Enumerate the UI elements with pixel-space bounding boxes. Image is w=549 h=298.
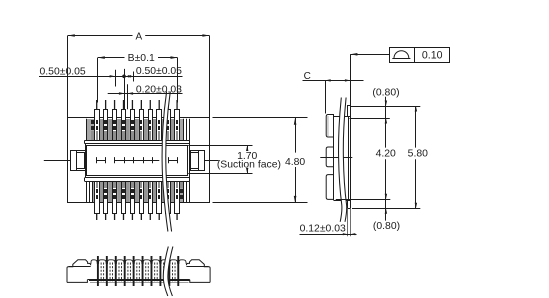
central body inner line bbox=[87, 146, 188, 176]
profile tolerance frame bbox=[390, 48, 450, 63]
bottom band left end wall bbox=[87, 181, 93, 202]
side view pin edge extensions bbox=[347, 208, 349, 236]
svg-text:B±0.1: B±0.1 bbox=[128, 53, 155, 64]
dimension 4.20/0.80 line bbox=[385, 97, 387, 148]
svg-text:0.50±0.05: 0.50±0.05 bbox=[136, 66, 182, 77]
side view body left edge bbox=[333, 114, 335, 200]
dimension 5.80 line bbox=[415, 106, 417, 148]
top housing band (gray) bbox=[87, 119, 189, 140]
svg-text:(0.80): (0.80) bbox=[372, 88, 399, 99]
main view break gap (white) bbox=[162, 92, 172, 232]
svg-text:(0.80): (0.80) bbox=[373, 221, 400, 232]
side view top tab bbox=[326, 115, 334, 138]
top band end pocket bbox=[91, 120, 94, 124]
datum dot bbox=[122, 75, 126, 79]
dimension 5.80 extension top bbox=[351, 106, 421, 108]
side view mating face lines bbox=[348, 116, 350, 200]
side view body top edge bbox=[334, 116, 351, 118]
svg-text:4.80: 4.80 bbox=[285, 157, 305, 168]
bottom band end pocket bbox=[180, 182, 183, 188]
dimension B extension left bbox=[97, 58, 99, 103]
side view break line right bbox=[343, 98, 346, 222]
bottom view base plate lines bbox=[87, 279, 189, 281]
svg-text:(Suction face): (Suction face) bbox=[217, 159, 281, 170]
bottom view break line left bbox=[163, 247, 168, 297]
pin4 center extension bbox=[124, 69, 126, 102]
side view bottom tab bbox=[326, 175, 334, 200]
dimension B extension right bbox=[177, 58, 179, 103]
top flange edge bbox=[85, 140, 190, 142]
bottom view housing top edge under bumps bbox=[69, 266, 91, 268]
bottom view hidden contact lines bbox=[101, 263, 175, 282]
dimension A extension left bbox=[67, 36, 69, 118]
dimension 4.80 line bbox=[295, 118, 297, 153]
main view horizontal centerline right bbox=[189, 160, 219, 162]
bottom view contact legs bbox=[97, 256, 179, 286]
shaded gaps between contacts bbox=[100, 119, 174, 202]
dimension C extension left bbox=[325, 80, 327, 113]
bottom view break line right bbox=[168, 247, 173, 297]
side view middle tab bbox=[326, 147, 334, 167]
left metal fitting bbox=[71, 151, 86, 171]
side view centerline bbox=[320, 157, 352, 159]
dimension 4.20 extension top bbox=[350, 118, 390, 120]
body contact mark H3 bbox=[168, 157, 170, 163]
0.50 extension tick pin3 bbox=[115, 70, 117, 87]
svg-text:A: A bbox=[135, 31, 142, 42]
side view break gap (white) bbox=[339, 98, 347, 222]
main view break line right bbox=[166, 92, 172, 232]
0.50 arrows bbox=[110, 75, 116, 77]
0.50 extension tick pin5 bbox=[133, 72, 135, 82]
0.12 leader line bbox=[300, 234, 357, 236]
dimension 5.80 extension bottom bbox=[352, 208, 420, 210]
dimension 4.80 extension top bbox=[213, 117, 308, 119]
dimension C line bbox=[303, 80, 364, 82]
side view break line left bbox=[339, 98, 342, 222]
dimension 1.70 extension bottom bbox=[188, 173, 252, 175]
right metal fitting bbox=[191, 151, 205, 171]
dimension C extension right bbox=[350, 54, 352, 105]
top row contacts bbox=[95, 100, 180, 141]
bottom housing band (gray) bbox=[87, 181, 189, 202]
dimension A line bbox=[68, 35, 133, 37]
side view top pin stub bbox=[348, 106, 351, 117]
dimension 1.70 arrows bbox=[247, 146, 249, 151]
bottom band right end wall bbox=[184, 181, 189, 202]
body contact marks middle bbox=[115, 157, 160, 163]
central body outer bbox=[86, 144, 190, 178]
top band left edge bbox=[86, 119, 88, 141]
svg-text:0.12±0.03: 0.12±0.03 bbox=[300, 224, 346, 235]
dimension 4.80 extension bottom bbox=[213, 202, 308, 204]
0.20 arrows bbox=[119, 92, 125, 95]
bottom row contacts bbox=[95, 182, 180, 221]
svg-text:5.80: 5.80 bbox=[408, 149, 428, 160]
profile of surface symbol bbox=[394, 51, 409, 58]
svg-text:0.10: 0.10 bbox=[422, 50, 443, 62]
main view horizontal centerline left bbox=[44, 160, 85, 162]
0.20 extension twin lines bbox=[124, 84, 126, 109]
svg-text:0.50±0.05: 0.50±0.05 bbox=[40, 67, 86, 78]
bottom view right block bbox=[186, 260, 210, 283]
profile tolerance leader bbox=[350, 54, 389, 56]
top band right end wall bbox=[184, 119, 189, 140]
dimension 4.20 extension bottom bbox=[336, 199, 391, 201]
dimension A extension right bbox=[209, 36, 211, 118]
0.20 leader line bbox=[108, 93, 183, 95]
svg-text:4.20: 4.20 bbox=[376, 149, 396, 160]
bottom flange edge bbox=[85, 181, 190, 183]
side view bottom pin stub bbox=[348, 201, 351, 209]
main view outer rectangle (PCB outline) bbox=[68, 118, 210, 203]
main view break line left bbox=[162, 92, 168, 232]
side view body bottom edge bbox=[334, 200, 351, 202]
dimension B line bbox=[98, 57, 125, 59]
bottom view left block bbox=[67, 260, 91, 283]
bottom view scalloped housing edge bbox=[91, 260, 186, 264]
0.50 leader line bbox=[39, 76, 183, 78]
body contact mark H1 bbox=[96, 157, 98, 163]
bottom view break gap (white) bbox=[163, 247, 173, 297]
dimension 1.70 extension top bbox=[188, 145, 252, 147]
